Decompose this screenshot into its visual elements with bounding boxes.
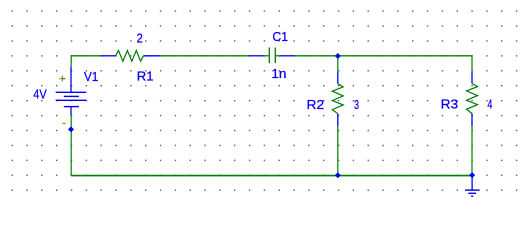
wire: top rail between R1 and C1 [160,55,249,57]
svg-text:R2: R2 [307,97,325,112]
svg-text:R1: R1 [137,69,154,84]
battery V1 [56,67,87,115]
resistor R2 [332,72,343,126]
wire: R3 bottom to bottom rail [471,126,473,176]
svg-text:4: 4 [487,97,492,112]
wire: right vertical from top rail down to R3 [471,55,473,71]
junction dot ground node [469,172,475,178]
ground [465,175,480,196]
svg-text:2: 2 [137,31,143,46]
svg-text:R3: R3 [441,97,459,112]
junction dot battery negative wire [68,126,74,132]
svg-text:C1: C1 [272,29,288,44]
svg-text:V1: V1 [84,69,98,84]
battery minus marker [62,122,65,124]
wire: top rail from C1 to right corner (through node A) [294,55,472,57]
wire: R2 bottom lead down to bottom rail [337,126,339,176]
wire: battery - terminal down to bottom rail [70,115,72,176]
wire: top rail from battery corner to R1 [71,55,101,57]
wire: left vertical from top rail down to battery + terminal [70,55,72,67]
svg-text:3: 3 [354,97,359,112]
svg-text:4V: 4V [33,87,47,102]
resistor R3 [467,72,478,127]
svg-text:1n: 1n [271,66,286,81]
capacitor C1 [249,48,294,64]
battery plus marker [59,76,65,82]
resistor R1 [101,51,160,62]
wire: node A down to R2 top lead [337,56,339,72]
junction dot R2 bottom [335,172,341,178]
node A junction dot (R2 top) [335,53,341,59]
wire: bottom rail [71,175,472,177]
